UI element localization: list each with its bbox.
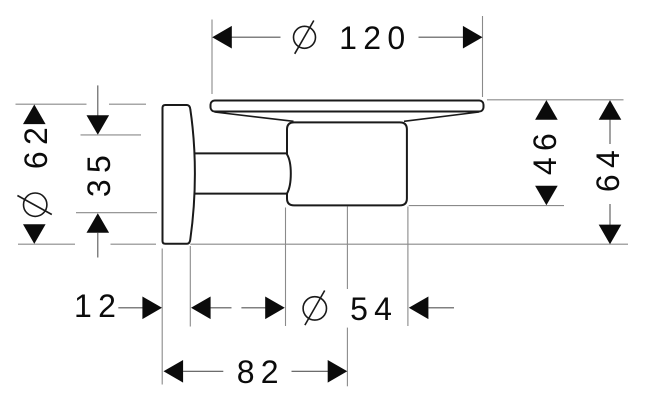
arrow 46 top — [535, 100, 558, 120]
extension line top for dia62 — [16, 103, 87, 105]
dimension text 120 — [339, 22, 411, 54]
dimension line 12 row — [118, 307, 142, 309]
arrow dia54 right (points left) — [409, 297, 429, 320]
arrow 64 bottom — [599, 225, 622, 245]
wall arm top line — [190, 152, 288, 154]
dimension text 54 — [350, 293, 398, 325]
extension line dia54 right — [407, 207, 409, 327]
dimension text 82 — [237, 356, 285, 388]
extension line 35 top — [81, 134, 142, 136]
arrow 82 right (points right) — [328, 360, 348, 383]
arrow 46 bottom — [535, 186, 558, 206]
arrow dia62 top — [23, 105, 46, 125]
long bottom reference line — [18, 243, 75, 245]
dimension line dia120 right segment — [419, 36, 464, 38]
dimension text 35 (rotated) — [83, 148, 115, 196]
arrow 35 bottom (points up) — [87, 213, 110, 233]
diameter symbol of 54 — [303, 291, 326, 326]
extension line 35 bottom — [76, 212, 157, 214]
dish underside taper left — [215, 112, 294, 121]
arrow 12 (points right) — [142, 297, 162, 320]
arrow 82 left (points left) — [164, 360, 184, 383]
extension line 12-right — [189, 246, 191, 327]
dish underside taper right — [404, 112, 479, 121]
wall arm bottom line — [190, 193, 288, 195]
extension line dia54 left — [285, 208, 287, 327]
extension line right middle (y=205.6) — [409, 205, 564, 207]
arrow dia120 right — [463, 26, 483, 49]
extension line left of dish (dia 120 left) — [211, 20, 213, 95]
dimension text 64 (rotated) — [592, 144, 624, 192]
dimension line 35 bottom tail — [97, 233, 99, 258]
arrow dia54 left (points right) — [265, 297, 285, 320]
extension line cup centre — [346, 207, 348, 290]
extension line right top (y=99.8) — [487, 99, 624, 101]
dimension line 35 top tail — [97, 85, 99, 115]
arrow 35 top (points down) — [87, 115, 110, 135]
wall plate (rosette side view) — [163, 105, 195, 244]
soap dish plate — [211, 101, 484, 112]
extension line 12-left (wall face) — [161, 249, 163, 385]
dimension text 62 (rotated) — [20, 121, 52, 169]
arrow 64 top — [599, 100, 622, 120]
dimension 64 vertical line segments — [609, 120, 611, 144]
arrow 12 opposing (points left) — [191, 297, 211, 320]
dimension text 12 — [74, 290, 122, 322]
dimension text 46 (rotated) — [529, 127, 561, 175]
diameter symbol of 120 — [294, 21, 316, 54]
diameter symbol of 62 (rotated) — [17, 193, 51, 216]
arrow dia62 bottom — [23, 224, 46, 244]
extension line right of dish (dia 120 right) — [482, 16, 484, 97]
dimension line dia120 left segment — [232, 36, 281, 38]
holder cup — [287, 122, 407, 205]
arrow dia120 left — [212, 26, 232, 49]
